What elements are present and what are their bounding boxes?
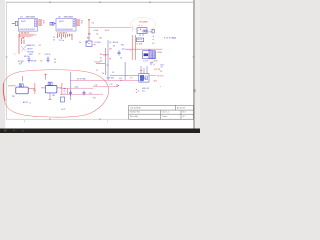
svg-text:5V 3V GND: 5V 3V GND [77,79,87,81]
svg-text:X7 4R: X7 4R [147,31,152,33]
svg-text:R8 1M: R8 1M [31,61,37,63]
svg-text:10uF 16V: 10uF 16V [107,78,115,80]
svg-text:Y1 20M: Y1 20M [136,43,142,45]
svg-text:of 1: of 1 [183,116,186,118]
svg-text:C7: C7 [96,70,98,72]
svg-text:4x: 4x [39,54,41,56]
svg-text:D1 LED: D1 LED [95,42,102,44]
svg-text:++: ++ [130,50,132,52]
svg-text:MR 10: MR 10 [24,56,29,58]
svg-text:1k: 1k [79,42,81,44]
svg-text:74HC595N: 74HC595N [26,16,36,18]
svg-text:TR1: TR1 [12,96,15,98]
svg-text:C5: C5 [92,23,94,25]
svg-text:C3: C3 [40,61,42,63]
svg-text:100n: 100n [75,86,79,88]
svg-text:C8: C8 [152,43,154,45]
svg-text:Number Rev: Number Rev [130,112,140,114]
svg-text:X6: X6 [102,73,104,75]
svg-text:Drawn: Drawn [162,116,167,118]
svg-text:2: 2 [107,121,108,123]
svg-text:X1: X1 [39,45,41,47]
svg-text:R11: R11 [87,38,90,40]
svg-text:Sh 1: Sh 1 [183,112,187,114]
svg-text:C11: C11 [89,93,92,95]
svg-text:VCC X8: VCC X8 [154,69,160,71]
svg-text:TR2: TR2 [52,95,55,97]
svg-text:CON8: CON8 [157,52,162,54]
svg-text:S1: S1 [19,64,21,66]
svg-text:C4: C4 [54,62,56,64]
svg-text:R12: R12 [121,45,124,47]
svg-text:3: 3 [24,121,25,123]
svg-text:OUT IN: OUT IN [45,54,51,56]
svg-text:X9 OUT: X9 OUT [157,75,163,77]
svg-text:R10: R10 [88,34,91,36]
svg-text:88: 88 [22,38,24,40]
svg-text:File x.ddb: File x.ddb [130,116,138,118]
svg-text:X5: X5 [107,65,109,67]
svg-text:10n X: 10n X [105,30,110,32]
svg-text:Q1: Q1 [109,42,111,44]
svg-text:W3: W3 [86,42,89,44]
svg-text:BC547: BC547 [113,42,118,44]
svg-text:2K2: 2K2 [99,38,102,40]
svg-text:X4: X4 [54,59,56,61]
svg-text:74HC595N: 74HC595N [64,16,74,18]
svg-text:OE GND: OE GND [27,52,34,54]
